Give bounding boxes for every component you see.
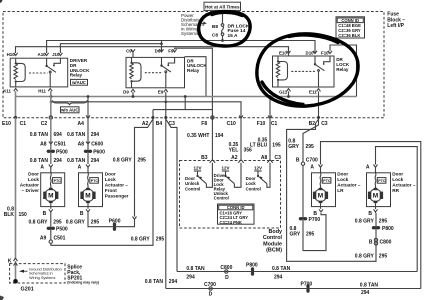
svg-text:D9: D9: [123, 90, 129, 95]
svg-text:K11: K11: [3, 89, 11, 94]
svg-text:294: 294: [361, 290, 370, 296]
svg-text:295: 295: [91, 219, 100, 225]
svg-text:D10: D10: [306, 50, 315, 55]
relay K1 label: [70, 58, 90, 78]
svg-text:C9: C9: [126, 48, 132, 53]
svg-text:B4: B4: [156, 121, 163, 127]
relay K2 pin C9: [126, 48, 135, 57]
relay K3 pin E10: [279, 47, 291, 56]
riser K11 to ground net: [14, 91, 17, 119]
riser A4: [86, 97, 90, 119]
svg-text:Door: Door: [105, 172, 116, 177]
wire A2-B4 unlock feed 0.8 GRY 295: [113, 119, 153, 219]
upper TAN wire to C800 P800: [177, 263, 417, 282]
relay K1 pin H11: [38, 88, 52, 93]
svg-text:A8: A8: [40, 142, 47, 148]
svg-text:150: 150: [19, 212, 28, 218]
svg-text:GRY: GRY: [288, 144, 299, 150]
svg-text:BLK: BLK: [4, 212, 15, 218]
fuse block dashed border: [3, 12, 384, 118]
svg-text:12V: 12V: [254, 166, 262, 171]
D6 riser relay2: [161, 41, 163, 53]
svg-text:C8: C8: [212, 32, 218, 38]
svg-text:Unlock: Unlock: [185, 181, 200, 186]
door lock actuator front passenger: [78, 164, 103, 209]
svg-text:Actuator –: Actuator –: [105, 183, 129, 188]
svg-text:Front: Front: [105, 188, 117, 193]
svg-text:Actuator –: Actuator –: [337, 183, 361, 188]
svg-text:0.8 GRY: 0.8 GRY: [355, 219, 375, 225]
svg-text:295: 295: [379, 254, 388, 260]
relay K3 pin E11: [309, 89, 320, 95]
svg-text:E10: E10: [279, 50, 287, 55]
door lock actuator driver: [40, 164, 64, 209]
svg-text:A9: A9: [40, 235, 47, 241]
svg-text:295: 295: [53, 219, 62, 225]
riser A2-B4 connector feed: [152, 110, 155, 119]
svg-text:P600: P600: [93, 150, 105, 156]
fuse block label: Fuse Block - Left I/P: [387, 12, 405, 29]
svg-text:D: D: [225, 275, 229, 281]
svg-text:Hot at All Times: Hot at All Times: [205, 4, 240, 9]
relay K1 pin A10: [38, 52, 49, 57]
relay K2 pin D6: [155, 48, 164, 53]
riser F10-C1 connector feed: [268, 97, 272, 119]
svg-text:P600: P600: [109, 218, 121, 224]
annotation circle around fuse: [199, 12, 250, 46]
BCM driver: driver door lock relay unlock control: [214, 163, 241, 201]
svg-text:0.35 WHT: 0.35 WHT: [187, 133, 210, 139]
svg-text:0.8 GRY: 0.8 GRY: [29, 219, 49, 225]
svg-text:C1: C1: [20, 121, 27, 127]
relay K3 pin D10: [306, 50, 317, 55]
svg-text:B: B: [296, 157, 300, 163]
relay K2 F9 to F8 riser: [175, 48, 213, 117]
svg-text:Ground Distribution: Ground Distribution: [29, 267, 62, 271]
svg-text:P800: P800: [382, 226, 394, 232]
svg-text:B: B: [43, 211, 47, 217]
wire B2-C3 unlock feed to rear doors: [287, 119, 376, 261]
relay K3 pin F10: [321, 50, 332, 55]
svg-text:A8: A8: [78, 142, 85, 148]
door lock actuator front passenger label: [105, 172, 129, 199]
riser D9 to L1: [132, 92, 134, 96]
svg-text:C2: C2: [41, 121, 48, 127]
passenger B drop to P600: [66, 209, 135, 231]
svg-text:w/o AUC: w/o AUC: [60, 108, 79, 113]
relay K1 pin K11: [3, 88, 18, 93]
wire C10 to BCM 0.35 YEL 356: [229, 118, 252, 162]
svg-text:Left I/P: Left I/P: [387, 23, 404, 29]
svg-text:Control: Control: [185, 186, 200, 191]
relay K1 pin H10: [7, 52, 18, 57]
svg-text:0.8 GRY: 0.8 GRY: [355, 254, 375, 260]
svg-text:C700: C700: [306, 157, 318, 163]
wire C2 to driver actuator 0.8 TAN 694/294: [30, 118, 68, 165]
CONN ID box (fuse block): [336, 17, 365, 38]
RR unlock chain P800 C800: [355, 219, 394, 260]
relay K2 box stub to riser: [185, 57, 207, 97]
svg-text:A: A: [40, 164, 44, 170]
svg-text:B: B: [80, 211, 84, 217]
svg-text:M: M: [85, 193, 90, 200]
svg-text:H11: H11: [38, 89, 46, 94]
svg-text:294: 294: [91, 132, 100, 138]
BCM pin A8-C3: [267, 160, 273, 163]
BCM pin A2: [238, 160, 244, 163]
relay K1 pin J10: [52, 52, 62, 57]
riser E9 to C3 connector: [164, 92, 167, 119]
BCM label: [263, 229, 283, 254]
svg-text:Door: Door: [185, 176, 195, 181]
svg-text:0.8 TAN: 0.8 TAN: [360, 283, 379, 289]
Hot at All Times box: [204, 2, 241, 10]
svg-text:294: 294: [91, 158, 100, 164]
annotation circle around DR LOCK relay: [257, 34, 358, 106]
fuse F14 DR LOCK 15A: [212, 10, 250, 41]
svg-text:H10: H10: [7, 52, 16, 57]
svg-text:C3: C3: [321, 121, 328, 127]
svg-text:Systems: Systems: [181, 31, 199, 36]
svg-text:C501: C501: [54, 235, 66, 241]
svg-text:Actuator: Actuator: [20, 183, 39, 188]
svg-text:LT BLU: LT BLU: [250, 143, 268, 149]
note: Power Distribution Schematics in Wiring Systems: [199, 22, 207, 25]
svg-text:B2: B2: [309, 121, 316, 127]
svg-text:P500: P500: [56, 227, 68, 233]
svg-text:P800: P800: [246, 263, 258, 269]
w/AUC tag: [71, 79, 88, 85]
door lock actuator RR: [366, 164, 391, 217]
svg-text:F8: F8: [201, 121, 207, 127]
svg-text:P700: P700: [301, 281, 313, 287]
svg-text:Body: Body: [269, 229, 282, 235]
relay K3 label: [336, 57, 350, 72]
svg-text:15 A: 15 A: [228, 33, 238, 39]
BCM pin B3: [210, 160, 216, 163]
svg-text:CONN ID: CONN ID: [227, 205, 245, 210]
svg-text:C700: C700: [204, 282, 216, 288]
svg-text:0.8 TAN: 0.8 TAN: [272, 266, 291, 272]
relay K3 F10 feed loop: [330, 45, 357, 97]
svg-text:E11: E11: [309, 89, 317, 94]
wire 0.8 BLK 150 ground drop: [4, 118, 27, 260]
relay K2 DR UNLOCK: [126, 57, 185, 87]
svg-text:F10: F10: [257, 121, 266, 127]
svg-text:Door: Door: [392, 172, 403, 177]
BCM dashed box: [180, 161, 281, 229]
svg-text:0.8 TAN: 0.8 TAN: [67, 132, 86, 138]
svg-text:0.8 TAN: 0.8 TAN: [186, 266, 205, 272]
BCM CONN ID box: [218, 204, 255, 225]
svg-text:294: 294: [274, 274, 283, 280]
svg-text:Lock: Lock: [28, 177, 39, 182]
svg-text:G201: G201: [21, 287, 34, 293]
wire A4 to passenger actuator 0.8 TAN 294: [67, 118, 105, 165]
BCM driver: door unlock control: [185, 163, 212, 192]
svg-text:295: 295: [138, 157, 147, 163]
svg-text:Lock: Lock: [392, 177, 403, 182]
svg-text:B8: B8: [212, 24, 218, 30]
svg-text:0.8 TAN: 0.8 TAN: [145, 279, 164, 285]
svg-text:Wiring Systems: Wiring Systems: [29, 276, 55, 280]
bus L2: [50, 101, 241, 118]
svg-text:Relay: Relay: [70, 73, 83, 78]
LR lock feed line: [321, 142, 421, 289]
svg-text:Door: Door: [246, 176, 256, 181]
svg-text:Control: Control: [246, 186, 261, 191]
wire F10-C1 to BCM 0.35 LT BLU 195: [250, 118, 281, 162]
svg-text:194: 194: [215, 133, 224, 139]
svg-text:PTC: PTC: [54, 179, 62, 183]
splice pack label: [67, 265, 99, 285]
svg-text:E9: E9: [158, 90, 164, 95]
svg-text:Relay: Relay: [336, 67, 349, 72]
svg-text:D6: D6: [155, 48, 161, 53]
svg-text:C800: C800: [380, 239, 392, 245]
svg-text:294: 294: [54, 158, 63, 164]
svg-text:E10: E10: [2, 121, 11, 127]
svg-text:A: A: [78, 164, 82, 170]
svg-text:B: B: [313, 211, 317, 217]
riser E11 to B2 connector: [317, 91, 320, 119]
BCM driver: door lock control: [246, 163, 270, 192]
svg-text:Schematics in: Schematics in: [29, 272, 53, 276]
splice P700 on LR unlock wire: [290, 213, 327, 251]
bus line C (H10 coil feed): [16, 47, 289, 53]
svg-text:PTC: PTC: [323, 179, 331, 183]
svg-text:0.8 GRY: 0.8 GRY: [113, 157, 133, 163]
svg-text:C800: C800: [220, 265, 232, 271]
svg-text:0.8 TAN: 0.8 TAN: [30, 132, 49, 138]
driver B drop to P500 C501: [29, 119, 165, 245]
wire F8 to BCM 0.35 WHT 194: [187, 118, 224, 162]
svg-text:D: D: [209, 291, 213, 297]
svg-text:F10: F10: [321, 50, 329, 55]
svg-text:12V: 12V: [221, 166, 229, 171]
svg-text:C600: C600: [91, 142, 103, 148]
svg-text:C10: C10: [227, 121, 236, 127]
relay K2 pin F9: [168, 48, 176, 53]
svg-text:295: 295: [379, 219, 388, 225]
relay K3 DR LOCK: [273, 56, 335, 87]
relay K2 pin E9: [158, 89, 168, 94]
svg-text:GRY: GRY: [290, 231, 301, 237]
svg-text:295: 295: [306, 231, 315, 237]
connector C700 pin B: [296, 157, 318, 219]
svg-text:12V: 12V: [193, 166, 201, 171]
splice pack SP201: [8, 258, 65, 292]
svg-text:C3=36 BLK: C3=36 BLK: [338, 33, 360, 38]
bus line B (J10 feed): [60, 42, 162, 53]
svg-text:M: M: [373, 193, 378, 200]
riser H11 to C2: [49, 91, 52, 119]
svg-text:(BCM): (BCM): [266, 248, 282, 254]
svg-text:Door: Door: [28, 172, 39, 177]
svg-text:F9: F9: [168, 48, 174, 53]
F8 connector symbol: [211, 116, 214, 119]
relay K1 DRIVER DR UNLOCK: [10, 58, 67, 87]
svg-text:PTC: PTC: [378, 179, 386, 183]
C10 connector symbol: [239, 116, 243, 119]
svg-text:LR: LR: [337, 188, 344, 193]
svg-text:B: B: [369, 239, 373, 245]
svg-text:Passenger: Passenger: [105, 194, 129, 199]
edge connector labels row: [2, 121, 328, 127]
svg-text:294: 294: [186, 274, 195, 280]
svg-text:G11: G11: [279, 89, 288, 94]
relay K2 pin D9: [123, 89, 135, 94]
svg-text:Lock: Lock: [337, 177, 348, 182]
svg-text:A10: A10: [38, 52, 47, 57]
relay K2 label: [187, 58, 207, 73]
svg-text:Lock: Lock: [105, 177, 116, 182]
riser G11 to L1: [288, 91, 290, 96]
svg-text:P700: P700: [309, 217, 321, 223]
svg-text:294: 294: [169, 279, 178, 285]
svg-text:Actuator –: Actuator –: [392, 183, 416, 188]
svg-text:0.8 TAN: 0.8 TAN: [30, 158, 49, 164]
svg-text:RR: RR: [392, 188, 399, 193]
bus L1 coil-return: [16, 95, 357, 98]
RR lock feed line: [376, 147, 418, 272]
wire C3 rear lock feed risers: [145, 119, 178, 289]
svg-text:A: A: [310, 164, 314, 170]
svg-text:C1: C1: [271, 121, 278, 127]
corner artifact bottom-left: [0, 296, 4, 300]
svg-text:w/AUC: w/AUC: [71, 80, 86, 85]
svg-text:Module: Module: [263, 241, 282, 247]
w/o AUC brace: [53, 100, 88, 113]
svg-text:Lock: Lock: [246, 181, 257, 186]
corner artifact top-left: [0, 0, 3, 3]
svg-text:CONN ID: CONN ID: [341, 18, 359, 23]
door lock actuator LR: [310, 164, 335, 217]
svg-text:– Driver: – Driver: [22, 188, 40, 193]
svg-text:694: 694: [54, 132, 63, 138]
bus L3: [153, 97, 212, 110]
door lock actuator driver label: [20, 172, 40, 194]
svg-text:0.8 GRY: 0.8 GRY: [131, 237, 151, 243]
svg-text:Door: Door: [337, 172, 348, 177]
svg-text:0.8 TAN: 0.8 TAN: [67, 158, 86, 164]
svg-text:Control: Control: [263, 235, 283, 241]
svg-text:C3=24 PNK: C3=24 PNK: [220, 220, 242, 225]
relay K3 pin G11: [279, 89, 290, 95]
svg-text:C501: C501: [54, 142, 66, 148]
svg-text:195: 195: [272, 143, 281, 149]
bus line A (fuse feed): [47, 41, 315, 54]
svg-text:A2: A2: [142, 121, 149, 127]
svg-text:B: B: [368, 211, 372, 217]
svg-text:Control: Control: [214, 195, 229, 200]
svg-text:A4: A4: [78, 121, 85, 127]
svg-text:P500: P500: [56, 150, 68, 156]
svg-text:0.8 GRY: 0.8 GRY: [66, 219, 86, 225]
svg-text:A: A: [366, 164, 370, 170]
svg-text:YEL: YEL: [229, 147, 239, 153]
door lock actuator RR label: [392, 172, 416, 194]
lower TAN wire to C700 P700: [166, 281, 421, 297]
svg-text:(Indexing may vary): (Indexing may vary): [67, 281, 99, 285]
svg-text:Relay: Relay: [187, 68, 200, 73]
svg-text:J10: J10: [52, 52, 60, 57]
svg-text:295: 295: [306, 144, 315, 150]
svg-text:M: M: [318, 193, 323, 200]
svg-text:M: M: [48, 193, 53, 200]
svg-text:PTC: PTC: [91, 179, 99, 183]
svg-text:295: 295: [156, 237, 165, 243]
door lock actuator LR label: [337, 172, 361, 194]
